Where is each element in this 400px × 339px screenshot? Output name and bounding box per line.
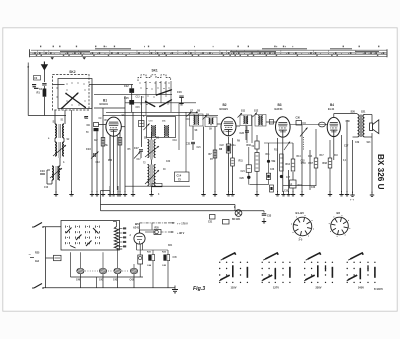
svg-text:R: R: [291, 184, 293, 187]
svg-text:C22a: C22a: [230, 145, 236, 147]
valve B3: [276, 117, 291, 137]
wire B1 pin g: [109, 135, 111, 192]
label S11: [241, 110, 259, 113]
svg-text:C10: C10: [44, 187, 49, 189]
valve B5: [134, 233, 145, 244]
capacitor C43: [130, 264, 138, 288]
svg-text:R11: R11: [239, 160, 244, 163]
wire bottom left horizontal: [28, 115, 66, 117]
wire B1 pin a: [116, 135, 118, 190]
wire v x288: [288, 170, 290, 192]
socket B1-B5: [293, 217, 312, 236]
wire R8 down: [228, 153, 230, 192]
svg-text:C36: C36: [311, 187, 316, 189]
ground x288: [286, 191, 290, 196]
node heater rect: [150, 184, 185, 192]
resistor R23 pair: [162, 250, 170, 288]
antenna arrow small: [27, 63, 29, 69]
wire mains bottom: [43, 287, 175, 289]
label B2: [220, 103, 229, 111]
ground x302: [300, 191, 304, 196]
wire SK1 v2: [155, 81, 157, 95]
svg-text:R21: R21: [168, 245, 173, 247]
label socket B1-B5: [296, 211, 305, 215]
IF can S12: [253, 113, 267, 127]
svg-text:BX 326 U: BX 326 U: [376, 154, 385, 190]
trimmer S2 arrow: [53, 145, 66, 156]
wire B3 down: [282, 138, 284, 192]
svg-text:C40: C40: [76, 279, 81, 282]
label B4: [328, 103, 335, 111]
svg-text:C37: C37: [344, 145, 349, 148]
svg-text:SK2: SK2: [69, 70, 75, 74]
capacitor C15: [124, 97, 134, 105]
wire bus join: [234, 205, 236, 211]
coil S6b: [154, 165, 156, 186]
mains switch SK3a: [32, 223, 44, 228]
ground x97: [95, 191, 99, 196]
label BX 326 U: [376, 154, 385, 190]
svg-text:EAF41: EAF41: [275, 107, 284, 111]
output arrow 178V: [140, 222, 189, 233]
capacitor C18: [139, 121, 145, 127]
bus mid y277: [71, 276, 144, 278]
resistor R14: [286, 159, 295, 171]
coil S1a: [55, 124, 56, 138]
svg-text:C17: C17: [137, 159, 142, 161]
capacitor C1: [32, 76, 47, 92]
trimmer C29: [300, 128, 308, 137]
wire B5 pins: [137, 243, 143, 250]
wire antenna main down: [43, 70, 45, 83]
wire B1 cathode down: [113, 136, 115, 192]
label SK2: [69, 70, 75, 74]
transformer S21 secondary: [363, 115, 365, 137]
wire v x193: [192, 126, 194, 140]
svg-text:C39: C39: [355, 142, 360, 144]
capacitor C26 dot: [240, 172, 251, 184]
capacitor C23: [240, 126, 250, 143]
output arrow 98V: [162, 231, 185, 235]
svg-text:B2: B2: [223, 103, 227, 107]
wire R12 down: [256, 171, 258, 192]
resistor R1: [37, 86, 47, 97]
potentiometer R16: [319, 122, 326, 127]
IF can S9: [203, 115, 218, 127]
antenna arrow main: [41, 62, 48, 71]
svg-text:ECH41: ECH41: [100, 102, 109, 106]
svg-text:B3: B3: [278, 103, 282, 107]
node y1846: [250, 184, 269, 186]
svg-text:SK1: SK1: [152, 69, 158, 73]
trimmer S5: [145, 146, 159, 157]
ground x125: [123, 191, 127, 196]
wire B5 top: [140, 230, 154, 233]
wire v x293: [292, 143, 294, 192]
wire h top sk2-b1: [53, 84, 134, 86]
svg-text:C23: C23: [240, 132, 245, 135]
label drawing number: [374, 288, 383, 291]
bus line A: [101, 204, 236, 206]
ground x92: [90, 191, 94, 196]
svg-text:C14: C14: [177, 175, 182, 178]
wire antenna left down: [27, 69, 29, 116]
svg-text:B1: B1: [103, 99, 107, 103]
resistor R7: [209, 150, 217, 158]
wire y186: [125, 183, 190, 186]
resistor R9: [231, 158, 235, 166]
resistor R12 tall: [255, 153, 259, 172]
wire h y945: [94, 94, 172, 96]
ground x110: [108, 186, 112, 196]
switch SK1 lever a: [156, 89, 172, 96]
wire x96 down: [95, 277, 97, 288]
transformer core: [360, 115, 362, 138]
mains plug: [29, 252, 35, 258]
ground C16: [179, 100, 183, 105]
coil S2a: [55, 142, 56, 156]
svg-text:C11: C11: [122, 115, 127, 117]
socket B6: [331, 217, 349, 235]
svg-text:C24: C24: [241, 170, 246, 173]
wire B4 down: [333, 137, 335, 160]
capacitor C41: [99, 252, 107, 287]
switch SK1 lever b: [159, 99, 172, 107]
label S7S8: [190, 110, 201, 113]
wire v x125: [124, 96, 126, 192]
core S6: [151, 165, 152, 187]
pilot lamp: [232, 210, 242, 221]
svg-text:C31: C31: [208, 222, 213, 224]
capacitor C14 box: [175, 172, 190, 182]
wire transformer to speaker: [365, 115, 373, 124]
svg-text:B6 GB1: B6 GB1: [232, 219, 241, 221]
resistor R21 pair: [147, 250, 155, 288]
svg-text:R17: R17: [309, 162, 314, 165]
svg-text:S21: S21: [361, 111, 366, 114]
wire SK1 v4: [165, 81, 167, 95]
ground B3: [281, 191, 285, 196]
wire v x3415: [341, 135, 343, 192]
capacitor C21: [186, 142, 195, 150]
core S5: [151, 140, 152, 160]
IF can S7S8: [187, 112, 204, 127]
ground x330: [328, 191, 332, 196]
svg-text:C10: C10: [40, 169, 45, 173]
wire v x1415: [141, 96, 143, 147]
valve B1: [106, 117, 121, 136]
wire osc down: [151, 187, 153, 193]
wire v x2325: [232, 138, 234, 158]
ground x277: [275, 191, 279, 196]
wire transformer bottom: [353, 133, 373, 193]
switch SK2 contacts: [56, 82, 85, 105]
wire v x1335: [131, 85, 133, 113]
wire b4 top: [334, 114, 358, 118]
wire pot to b4: [325, 124, 327, 126]
dial pointer b: [83, 57, 87, 59]
svg-text:C41: C41: [99, 279, 104, 282]
selector 127V: [262, 253, 291, 289]
coil can S5 inner: [149, 121, 157, 137]
wire h y1856: [283, 185, 316, 187]
label S9: [206, 114, 210, 117]
resistor R3: [101, 138, 105, 147]
resistor R15: [290, 180, 297, 188]
label S20: [351, 111, 367, 114]
coil can S5 box: [144, 117, 176, 138]
coil S5b: [154, 140, 156, 158]
wire node down: [256, 185, 258, 192]
svg-text:B 42179: B 42179: [374, 288, 383, 291]
svg-text:C22: C22: [166, 161, 171, 163]
svg-text:C16: C16: [186, 119, 191, 121]
wire v x352: [352, 140, 354, 193]
trimmer C13: [86, 148, 99, 159]
svg-text:C34: C34: [308, 155, 313, 158]
wire h y1028: [125, 102, 196, 104]
wire h y1153: [103, 114, 218, 116]
wire v x120: [119, 130, 121, 192]
svg-text:+ +: + +: [350, 198, 354, 202]
label B5: [133, 222, 140, 230]
voltage selector contacts: [66, 226, 100, 249]
wire v x330: [329, 140, 331, 192]
svg-text:245V: 245V: [358, 285, 364, 289]
ground x3415: [339, 191, 343, 196]
svg-text:S20: S20: [351, 111, 356, 114]
ground x293: [291, 191, 295, 196]
svg-text:C26: C26: [270, 169, 275, 171]
svg-text:C19: C19: [173, 140, 178, 142]
wire h y143 b3: [264, 142, 293, 144]
dial scale: [30, 46, 388, 58]
wire heater top: [113, 222, 117, 227]
wire SK1 v5: [170, 81, 172, 112]
wire S1 join: [55, 138, 64, 142]
resistor R10: [247, 135, 260, 149]
capacitor C31: [208, 215, 215, 224]
svg-text:C43: C43: [130, 279, 135, 282]
svg-text:C21: C21: [186, 143, 191, 146]
svg-text:R12: R12: [274, 150, 279, 152]
wire R10 down: [256, 149, 258, 153]
resistor R22 box: [138, 244, 143, 277]
label Fig.3: [193, 286, 205, 292]
wire b3 to pot: [290, 124, 318, 126]
ground x372: [370, 192, 374, 197]
capacitor C30: [296, 117, 307, 126]
wire v x179: [178, 103, 180, 150]
heater dropper S0: [114, 227, 118, 250]
label S5: [144, 137, 160, 140]
resistor R18: [323, 158, 332, 168]
wire R9 down: [232, 166, 234, 192]
wire caps top: [137, 249, 169, 251]
ground SK2 mid: [69, 191, 73, 196]
svg-text:R15: R15: [298, 185, 303, 187]
transformer S20 primary: [358, 115, 360, 137]
capacitor C33: [262, 211, 272, 223]
trimmer B3 cathode: [284, 142, 290, 151]
switch SK2 lever b: [65, 93, 86, 108]
wire SK2 mid down: [71, 110, 73, 192]
label S1: [53, 120, 57, 124]
wire B3 left: [266, 120, 276, 124]
svg-text:C35: C35: [284, 191, 289, 193]
svg-text:C45: C45: [173, 256, 178, 259]
svg-text:C27: C27: [286, 177, 291, 179]
wire v x277: [277, 138, 279, 192]
coil can S6 inner: [162, 121, 169, 137]
svg-text:R1: R1: [37, 91, 41, 95]
label B3: [275, 103, 284, 111]
wire v x215: [214, 127, 216, 193]
wire mains vertical: [45, 227, 47, 288]
selector 220V: [304, 253, 333, 289]
svg-text:R18: R18: [323, 162, 328, 165]
core S1: [59, 124, 61, 138]
ground R8: [226, 191, 230, 196]
selector 245V: [347, 253, 376, 289]
trimmer S3 arrow: [50, 168, 62, 178]
ground x352: [350, 192, 354, 197]
voltage selector box: [61, 221, 120, 251]
svg-text:S11: S11: [241, 110, 246, 113]
capacitor C40: [76, 252, 84, 287]
bus line B: [101, 210, 265, 212]
svg-text:C12: C12: [124, 85, 129, 88]
svg-text:C21: C21: [197, 147, 202, 149]
switch SK1 outline: [138, 75, 171, 81]
speaker: [370, 120, 379, 134]
resistor R20: [145, 227, 161, 234]
svg-text:S1: S1: [53, 120, 57, 124]
ground x347: [345, 191, 349, 196]
IF can S11: [238, 113, 252, 126]
label SK1: [152, 69, 158, 73]
ground coil S3: [54, 191, 58, 196]
capacitor C9: [87, 123, 99, 132]
capacitor C7: [85, 116, 89, 118]
trimmer C17 arrow: [134, 152, 140, 159]
mains switch SK3b: [32, 284, 44, 289]
wire v x103: [102, 108, 104, 192]
capacitor C42: [113, 250, 121, 288]
svg-text:EL41: EL41: [328, 107, 335, 111]
wire B2 left: [217, 123, 221, 125]
coil S3b: [59, 166, 60, 180]
svg-text:R14: R14: [297, 155, 302, 158]
svg-text:C15: C15: [136, 107, 141, 109]
ground x2325: [230, 191, 234, 196]
valve B4: [327, 117, 340, 136]
wire B1 pin2: [108, 136, 112, 161]
label C10: [40, 169, 45, 175]
core S3: [56, 166, 58, 180]
ground x215: [213, 191, 217, 196]
switch SK2 box: [53, 75, 93, 111]
resistor R13: [280, 154, 284, 171]
svg-text:127V: 127V: [273, 285, 279, 289]
ground x118: [116, 186, 120, 196]
wire SK1 v3: [160, 81, 162, 103]
socket B6 pin numbers: [329, 215, 351, 237]
wire C9 to tube: [99, 124, 107, 126]
resistor R11: [239, 147, 252, 172]
dial pointer a: [51, 57, 55, 60]
svg-text:1k2: 1k2: [35, 260, 40, 263]
capacitor C27 dot: [280, 175, 283, 178]
svg-text:C13: C13: [96, 162, 101, 164]
wire B2 down: [228, 137, 230, 144]
trimmer S6: [145, 170, 159, 184]
wire v x347: [346, 120, 348, 192]
coil S2b: [63, 142, 64, 156]
label lamp: [234, 206, 236, 209]
wire S3 down: [47, 170, 56, 193]
svg-text:B1–B5: B1–B5: [296, 211, 305, 215]
wire h x94 y108: [94, 107, 125, 109]
svg-text:AZ41: AZ41: [133, 227, 140, 230]
svg-text:C33: C33: [267, 216, 272, 218]
svg-text:220V: 220V: [315, 285, 321, 289]
label C37: [344, 145, 349, 148]
wire v x186: [185, 112, 187, 172]
capacitor C29 box: [266, 173, 270, 184]
svg-text:C13: C13: [86, 148, 91, 151]
switch SK2 lever a: [61, 92, 79, 109]
switch SK1 lever c: [145, 101, 155, 107]
coil S5a: [148, 140, 150, 158]
wire v x97: [96, 131, 98, 192]
svg-text:R20: R20: [155, 227, 160, 229]
svg-text:Fig.3: Fig.3: [193, 286, 205, 292]
value labels: [44, 97, 371, 260]
svg-text:+ + 178 V: + + 178 V: [177, 223, 188, 226]
wire SK2 left: [54, 110, 56, 124]
resistor R17: [309, 158, 318, 168]
ground x103: [101, 191, 105, 196]
wire B1 side: [121, 126, 125, 128]
svg-text:R18: R18: [334, 155, 339, 157]
wire B2 right: [236, 125, 240, 127]
wire SK1 v1: [145, 81, 147, 115]
label socket pins: [299, 240, 304, 242]
svg-text:C38: C38: [346, 121, 351, 123]
plus marks: [350, 198, 354, 202]
earth main: [172, 286, 178, 293]
svg-text:B5: B5: [135, 222, 139, 226]
wire v x133b: [132, 112, 134, 192]
svg-text:R14: R14: [286, 163, 291, 166]
svg-text:S12: S12: [254, 110, 259, 113]
switch SK1 contacts: [139, 82, 169, 106]
svg-text:C12: C12: [136, 97, 141, 99]
ground x120: [118, 191, 122, 196]
svg-text:1750: 1750: [301, 163, 307, 165]
ground x203: [201, 191, 205, 196]
svg-text:C30: C30: [296, 117, 301, 120]
label socket B6: [337, 211, 341, 215]
svg-text:C16: C16: [177, 91, 182, 94]
wire x252: [251, 115, 253, 143]
svg-text:C32: C32: [301, 161, 306, 163]
wire S2 down: [59, 158, 61, 166]
wire v x302: [301, 125, 303, 192]
heater taps: [119, 227, 127, 247]
resistor R8: [219, 144, 231, 153]
